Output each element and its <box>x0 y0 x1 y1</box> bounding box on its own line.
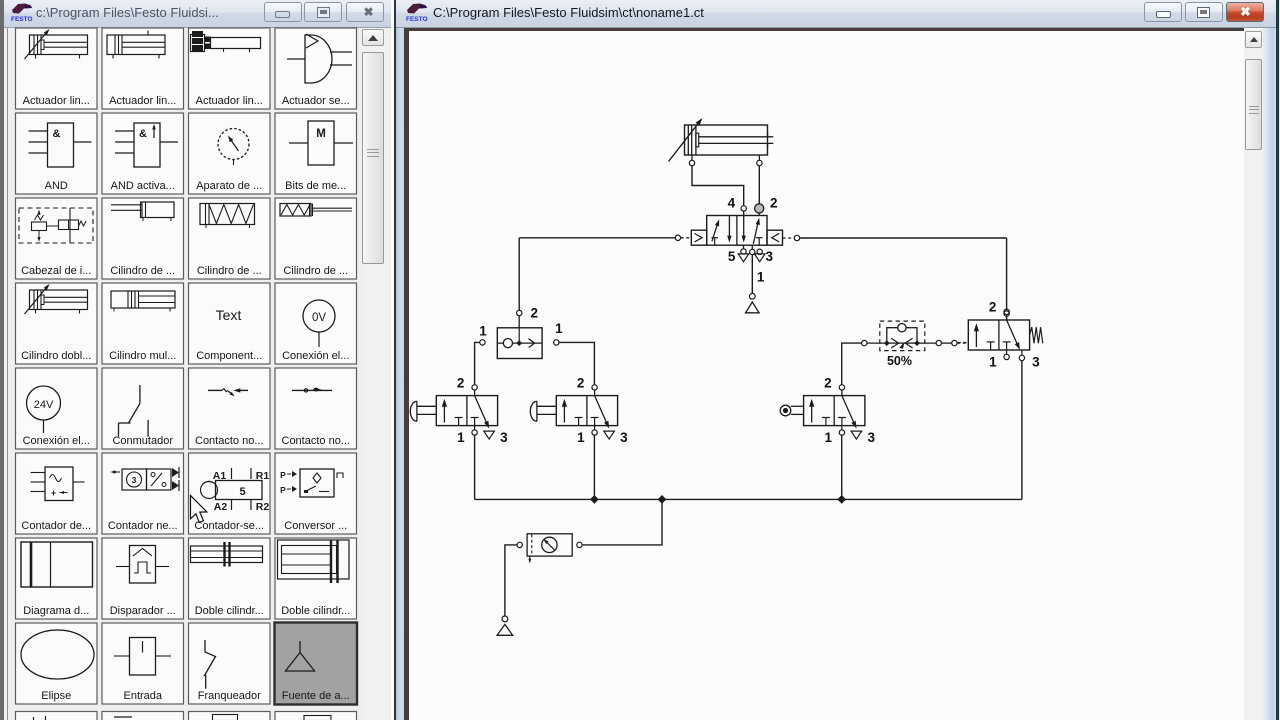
1S1 port 3 exhaust <box>484 431 495 439</box>
1V1 port 4 connection <box>741 206 746 211</box>
palette cell: Cilindro de ... <box>275 198 357 279</box>
left window (component library) <box>4 0 391 720</box>
palette cell: Actuador lin... <box>102 28 184 109</box>
valve 1S3 3/2-way body <box>556 396 617 426</box>
palette cell: Actuador se... <box>275 28 357 109</box>
palette icon: memory bits block <box>308 121 334 165</box>
svg-text:A2: A2 <box>214 501 228 513</box>
palette cell: Contador ne... <box>102 453 184 534</box>
svg-text:1: 1 <box>555 321 563 336</box>
svg-text:Franqueador: Franqueador <box>198 690 261 702</box>
palette cell: Actuador lin... <box>16 28 98 109</box>
0Z1 port nodes <box>517 542 522 547</box>
1S1 right chamber blocked/exhaust path <box>471 417 479 419</box>
wire valve 1S1 port 1 to manifold <box>474 435 476 499</box>
palette cell: Elipse <box>16 623 98 704</box>
svg-text:5: 5 <box>239 486 245 498</box>
palette icon: normally closed contact <box>292 389 332 391</box>
palette cell: Component... <box>189 283 271 364</box>
palette icon: linear actuator with cushioning <box>30 35 88 55</box>
valve 1S3b 3/2-way body <box>804 396 865 426</box>
svg-text:Cilindro mul...: Cilindro mul... <box>109 350 176 362</box>
manifold junction dots <box>590 495 599 504</box>
Festo logo <box>12 4 31 14</box>
palette cell (partial row) <box>189 712 271 720</box>
svg-text:Cilindro de ...: Cilindro de ... <box>283 265 348 277</box>
palette icon: input <box>130 638 156 676</box>
pilot line left: shuttle valve to 1V1 left pilot <box>681 237 692 239</box>
svg-text:2: 2 <box>989 300 997 315</box>
svg-text:Contador de...: Contador de... <box>21 520 91 532</box>
palette cell: Cabezal de i... <box>16 198 98 279</box>
wire cylinder right port to valve port 2 node <box>758 166 760 204</box>
palette icon: single-acting cylinder <box>141 202 175 218</box>
palette cell (partial row) <box>16 712 98 720</box>
svg-text:Text: Text <box>216 307 242 323</box>
svg-text:50%: 50% <box>887 354 912 368</box>
palette cell: Contador de... <box>16 453 98 534</box>
palette icon: multi-position cylinder <box>111 291 175 308</box>
1S2 port 2 node <box>1004 309 1009 314</box>
palette cell (partial row) <box>102 712 184 720</box>
palette cell: Contacto no... <box>275 368 357 449</box>
palette icon: trigger <box>130 546 156 584</box>
svg-text:Cilindro de ...: Cilindro de ... <box>197 265 262 277</box>
svg-text:3: 3 <box>867 430 875 445</box>
supply manifold line <box>475 498 1022 500</box>
shuttle valve junction dot <box>516 340 522 346</box>
palette icon: semi-rotary actuator <box>305 35 332 83</box>
Festo logo <box>407 4 426 14</box>
palette cell: Cilindro de ... <box>189 198 271 279</box>
plate push-button actuator <box>416 401 418 421</box>
valve 1S2 port 3 node <box>1021 350 1023 355</box>
svg-text:Actuador lin...: Actuador lin... <box>109 95 176 107</box>
1S3 port 1 node <box>592 430 597 435</box>
palette icon: spring return cylinder <box>280 204 311 217</box>
round push-button actuator <box>780 405 791 416</box>
svg-text:Fuente de a...: Fuente de a... <box>282 690 350 702</box>
palette icon: indexing head <box>19 208 93 243</box>
svg-text:Conmutador: Conmutador <box>112 435 173 447</box>
wire shuttle left port to valve 1S1 port 2 <box>475 342 480 384</box>
svg-text:5: 5 <box>728 249 736 264</box>
1V1 port 3 with exhaust <box>757 249 762 254</box>
1V1 left chamber flow arrows <box>712 224 718 242</box>
svg-text:3: 3 <box>500 430 508 445</box>
palette icon: preset counter <box>45 467 73 501</box>
1S1 left chamber pass arrow <box>443 403 445 423</box>
svg-text:2: 2 <box>824 375 832 390</box>
palette icon: compressed air source (selected) <box>299 641 301 653</box>
1S3b left chamber pass arrow <box>811 403 813 423</box>
svg-text:Aparato de ...: Aparato de ... <box>196 180 262 192</box>
svg-text:3: 3 <box>132 475 137 485</box>
palette cell: Actuador lin... <box>189 28 271 109</box>
svg-text:R2: R2 <box>256 501 270 513</box>
cushioning adjust arrow <box>669 121 701 162</box>
svg-text:Component...: Component... <box>196 350 262 362</box>
desktop edge strip <box>0 0 4 720</box>
wire valve 1S3 port 1 to manifold <box>593 435 595 499</box>
0Z1 drain mark <box>529 556 531 561</box>
svg-text:AND activa...: AND activa... <box>111 180 175 192</box>
1S3 port 3 exhaust <box>604 431 615 439</box>
1V3 junction dots <box>884 340 890 346</box>
svg-text:1: 1 <box>989 354 997 369</box>
wire service unit to air supply <box>505 545 517 616</box>
wire manifold down to air service unit <box>582 499 662 545</box>
compressed air source 0Z2 <box>502 616 508 622</box>
palette icon: state diagram <box>21 542 93 587</box>
svg-text:3: 3 <box>1032 354 1040 369</box>
palette cell: Conversor ... <box>275 453 357 534</box>
plate push-button actuator <box>536 401 538 421</box>
palette cell: Doble cilindr... <box>189 538 271 619</box>
1S3 right chamber blocked/exhaust path <box>591 417 599 419</box>
svg-text:P: P <box>280 470 286 480</box>
svg-text:24V: 24V <box>34 399 54 411</box>
palette cell: Fuente de a... <box>275 623 358 705</box>
svg-text:AND: AND <box>45 180 68 192</box>
1S2 port 1 node <box>1004 354 1009 359</box>
1S2 left chamber pass arrow <box>975 328 977 348</box>
svg-text:&: & <box>139 128 147 140</box>
palette icon: double-acting cylinder <box>30 290 88 310</box>
partial row icon fragments <box>33 717 35 720</box>
cylinder port stubs and connection nodes <box>691 155 693 160</box>
svg-text:Actuador lin...: Actuador lin... <box>23 95 90 107</box>
1V3 throttle arrows <box>891 338 898 348</box>
svg-text:Doble cilindr...: Doble cilindr... <box>281 605 350 617</box>
svg-text:3: 3 <box>766 249 774 264</box>
palette cell: Conexi&#243;n el... <box>275 283 357 364</box>
palette cell: Contador-se... <box>189 453 271 534</box>
mouse cursor <box>191 496 207 523</box>
1S3b port 2 node <box>839 385 844 390</box>
palette icon: double cylinder B <box>278 540 350 579</box>
palette cell: Franqueador <box>189 623 271 704</box>
palette icon: 0V electrical connection <box>303 300 335 332</box>
1V1 port 5 with exhaust <box>743 245 745 249</box>
wire shuttle right port to valve 1S3 port 2 <box>559 342 594 384</box>
left window scrollbar <box>362 28 385 720</box>
palette icon: normally open contact <box>208 389 222 391</box>
return spring <box>1030 327 1043 343</box>
svg-text:2: 2 <box>577 375 585 390</box>
svg-text:1: 1 <box>824 430 832 445</box>
right window scrollbar <box>1244 30 1263 720</box>
svg-text:Cilindro dobl...: Cilindro dobl... <box>21 350 91 362</box>
palette cell: AND <box>16 113 98 194</box>
1V1 port 2 highlighted node (gray) <box>755 204 764 213</box>
air service unit 0Z1 <box>527 534 572 556</box>
palette icon: pneumatic counter <box>113 471 121 473</box>
svg-text:4: 4 <box>728 195 736 210</box>
palette icon: changeover switch <box>139 385 141 404</box>
svg-text:Cilindro de ...: Cilindro de ... <box>110 265 175 277</box>
palette cell: Diagrama d... <box>16 538 98 619</box>
svg-text:Contador ne...: Contador ne... <box>108 520 178 532</box>
svg-text:2: 2 <box>770 195 778 210</box>
palette cell: Contacto no... <box>189 368 271 449</box>
shuttle valve (OR) 1V2 <box>497 328 542 359</box>
palette cell (partial row) <box>275 712 357 720</box>
palette icon: ellipse <box>21 630 94 679</box>
palette cell: Disparador ... <box>102 538 184 619</box>
valve 1V1 5/2-way double pilot <box>707 216 767 246</box>
svg-text:1: 1 <box>577 430 585 445</box>
palette icon: breaker <box>205 640 216 689</box>
palette cell: Doble cilindr... <box>275 538 357 619</box>
palette icon: linear actuator <box>107 35 165 55</box>
svg-text:Elipse: Elipse <box>41 690 71 702</box>
svg-text:Conexión el...: Conexión el... <box>23 435 90 447</box>
wire 1S2 down to supply manifold <box>1021 361 1023 500</box>
svg-text:2: 2 <box>531 305 539 320</box>
svg-text:Actuador se...: Actuador se... <box>282 95 350 107</box>
valve 1S1 3/2-way body <box>436 396 497 426</box>
1V3 inner throttle/check body <box>887 328 917 343</box>
svg-text:Conversor ...: Conversor ... <box>284 520 347 532</box>
1V1 left pneumatic pilot <box>691 230 706 245</box>
wire 1V1 port 1 to air source <box>751 255 753 294</box>
wire valve 1S3b port 2 up to flow control <box>842 343 862 385</box>
palette icon: AND gate activated <box>134 123 160 167</box>
1S1 port 1 node <box>472 430 477 435</box>
palette cell: Conexi&#243;n el... <box>16 368 98 449</box>
svg-text:Actuador lin...: Actuador lin... <box>196 95 263 107</box>
palette cell: Bits de me... <box>275 113 357 194</box>
svg-text:Contacto no...: Contacto no... <box>282 435 351 447</box>
cylinder 1A1 double-acting with adjustable cushioning <box>685 125 768 155</box>
palette cell: Cilindro mul... <box>102 283 184 364</box>
svg-text:0V: 0V <box>312 312 326 324</box>
palette cell: Aparato de ... <box>189 113 271 194</box>
palette cell: Entrada <box>102 623 184 704</box>
svg-text:1: 1 <box>457 430 465 445</box>
svg-text:1: 1 <box>479 323 487 338</box>
palette cell: AND activa... <box>102 113 184 194</box>
right window (circuit noname1.ct) <box>391 0 1280 720</box>
1S1 port 2 node <box>472 385 477 390</box>
compressed air source under 1V1 <box>749 293 755 299</box>
1S3 port 2 node <box>592 385 597 390</box>
svg-text:Diagrama d...: Diagrama d... <box>23 605 89 617</box>
palette cell: Cilindro de ... <box>102 198 184 279</box>
svg-text:1: 1 <box>757 270 765 285</box>
1V1 right pneumatic pilot <box>767 230 783 245</box>
palette cell: Conmutador <box>102 368 184 449</box>
svg-text:M: M <box>316 128 326 140</box>
svg-text:P: P <box>280 485 286 495</box>
1V1 port 1 supply <box>751 245 753 249</box>
svg-text:Cabezal de i...: Cabezal de i... <box>21 265 91 277</box>
palette icon: 24V electrical connection <box>27 386 61 420</box>
1S3 left chamber pass arrow <box>563 403 565 423</box>
svg-text:Contacto no...: Contacto no... <box>195 435 264 447</box>
svg-text:Disparador ...: Disparador ... <box>110 605 176 617</box>
1V1 right chamber flow arrows <box>743 216 745 239</box>
svg-text:Doble cilindr...: Doble cilindr... <box>195 605 264 617</box>
shuttle valve side port nodes <box>480 340 485 345</box>
1S3b right chamber blocked/exhaust path <box>838 417 846 419</box>
svg-text:&: & <box>53 128 61 140</box>
svg-text:3: 3 <box>620 430 628 445</box>
palette icon: spring cylinder <box>200 204 255 225</box>
svg-text:2: 2 <box>457 375 465 390</box>
palette icon: linear actuator with gear <box>191 35 205 52</box>
palette icon: AND gate <box>48 123 74 167</box>
svg-text:Conexión el...: Conexión el... <box>282 350 349 362</box>
wire flow control to 1S2 pilot <box>917 342 936 344</box>
one-way flow control valve 1V3 (dashed enclosure) <box>880 321 925 351</box>
1S3b port 3 exhaust <box>851 431 862 439</box>
palette cell: Cilindro dobl... <box>16 283 98 364</box>
palette icon: double cylinder A <box>191 546 263 563</box>
svg-text:+: + <box>51 488 56 498</box>
1S3b port 1 node <box>839 430 844 435</box>
1S2 right chamber blocked/exhaust path <box>1003 341 1011 343</box>
wire valve 1S3b port 1 to manifold <box>841 435 843 499</box>
1V3 port nodes <box>862 340 867 345</box>
svg-text:Contador-se...: Contador-se... <box>194 520 264 532</box>
svg-text:Bits de me...: Bits de me... <box>285 180 346 192</box>
pilot line right: 1V1 right pilot to valve 1S2 <box>783 237 795 239</box>
svg-text:Entrada: Entrada <box>123 690 162 702</box>
pneumatic pilot connection (dash-dot) of valve 1S2 <box>958 342 969 344</box>
wire cylinder left port to valve port 4 <box>692 166 744 206</box>
palette icon: measuring device <box>218 129 249 160</box>
valve 1S2 3/2-way body <box>968 320 1029 350</box>
